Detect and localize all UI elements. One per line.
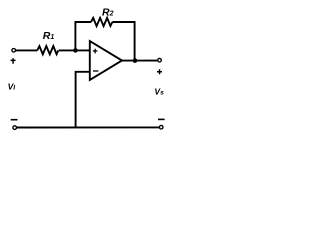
node A (R1/R2 junction) <box>73 48 78 53</box>
bottom rail wire <box>17 126 159 128</box>
op-amp + input mark <box>93 49 98 54</box>
wire node A up and over to R2 <box>75 22 91 50</box>
wire op-amp − input to ground rail <box>76 72 90 128</box>
resistor R2 <box>91 18 112 26</box>
op-amp U1 <box>90 41 122 80</box>
op-amp − input mark <box>93 70 98 72</box>
label vI <box>8 82 16 92</box>
svg-text:Vs: Vs <box>154 86 164 96</box>
bottom-left terminal (−) <box>13 126 17 130</box>
label vS <box>154 86 164 96</box>
plus polarity mark (input) <box>11 58 16 63</box>
output terminal (right, +) <box>158 58 162 62</box>
minus polarity mark (bottom right) <box>158 119 165 121</box>
bottom-right terminal (−) <box>159 125 163 129</box>
wire R2 down to output node <box>112 22 134 61</box>
wire input to R1 <box>16 49 37 51</box>
node B (output junction) <box>133 58 138 63</box>
label R1 <box>43 30 55 42</box>
svg-text:R1: R1 <box>43 30 55 42</box>
wire op-amp output to output terminal <box>122 60 157 62</box>
input terminal (left, +) <box>12 49 16 53</box>
minus polarity mark (bottom left) <box>11 119 18 121</box>
plus polarity mark (output) <box>157 69 162 74</box>
wire R1 to op-amp + input <box>59 49 90 51</box>
svg-text:VI: VI <box>8 82 16 92</box>
resistor R1 <box>37 46 58 54</box>
label R2 <box>102 6 114 18</box>
svg-text:R2: R2 <box>102 6 114 18</box>
